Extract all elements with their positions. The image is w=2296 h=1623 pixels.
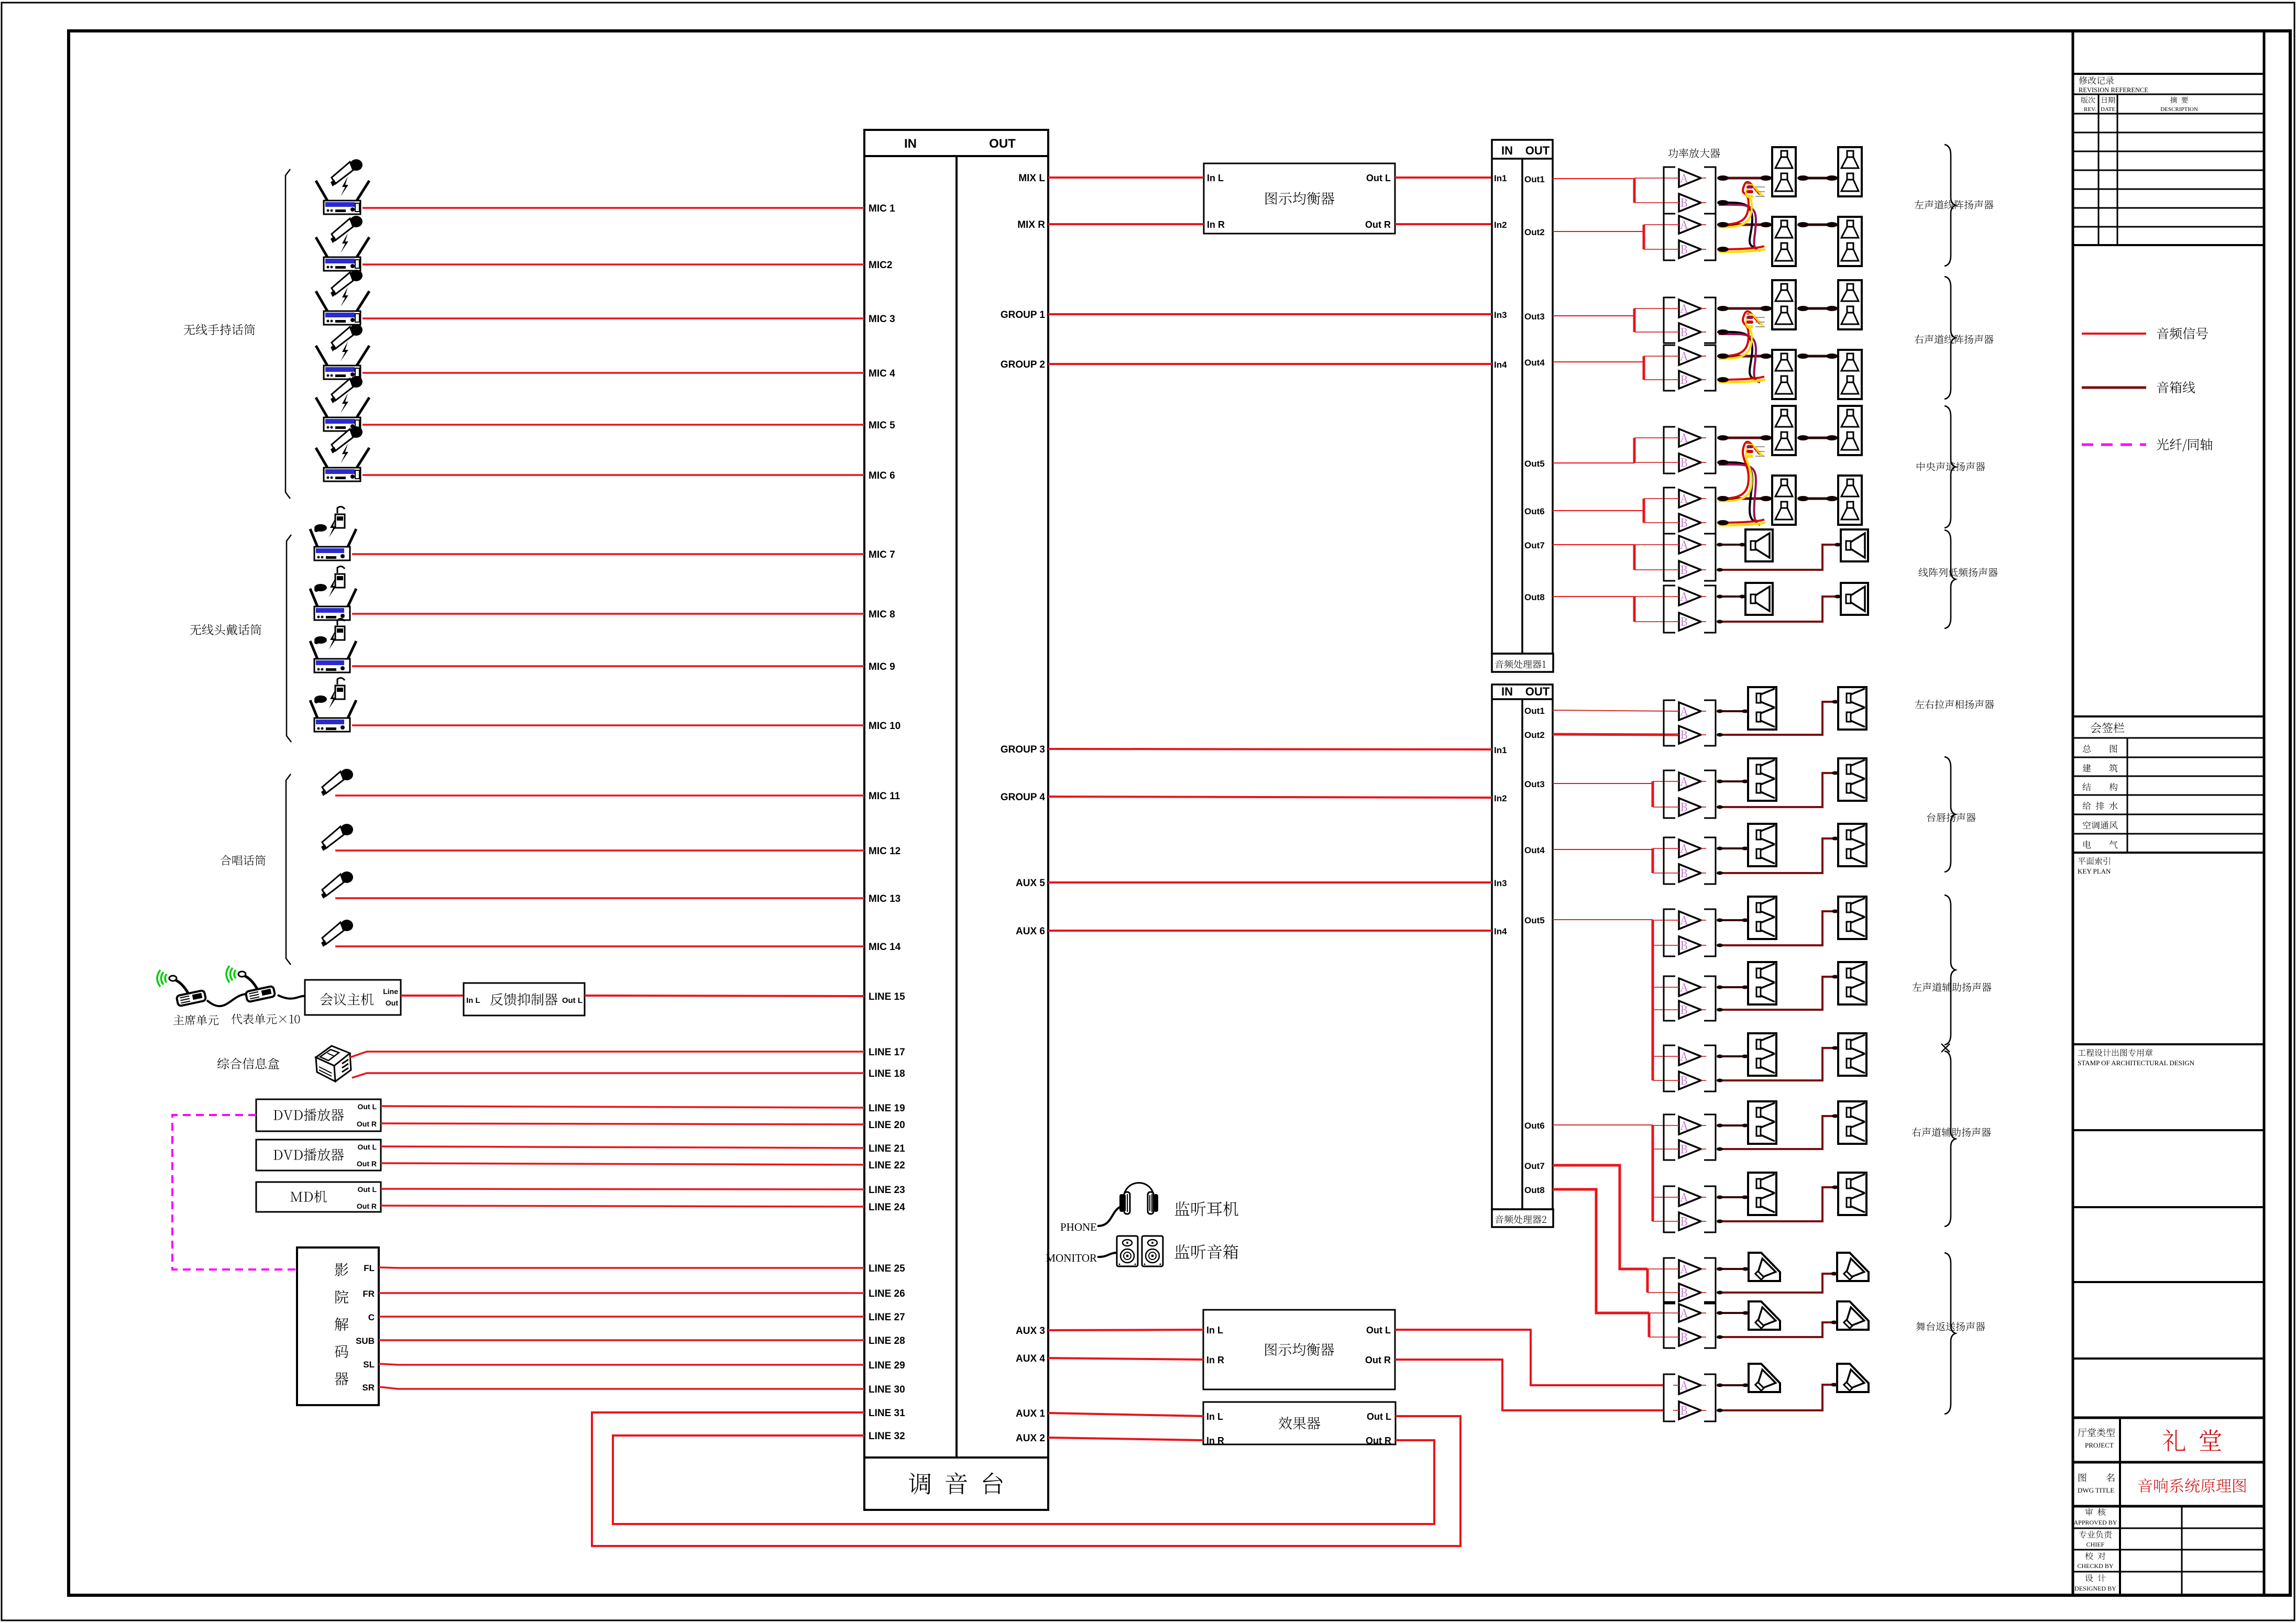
svg-text:Out7: Out7 xyxy=(1524,540,1545,550)
speaker LIP-1 col2 xyxy=(1838,758,1866,801)
wire MIC 4 signal xyxy=(362,372,864,374)
decoder name char 院 xyxy=(336,1290,349,1304)
amplifier MON-3 bracket xyxy=(1664,1374,1675,1421)
wire MIC 12 signal xyxy=(335,849,864,852)
cable color legend xyxy=(1746,183,1749,184)
礼堂 red title xyxy=(2163,1429,2222,1451)
svg-text:Out6: Out6 xyxy=(1524,1121,1545,1131)
amplifier MON-2 channel A xyxy=(1679,1304,1701,1322)
decoder name char 影 xyxy=(335,1263,348,1276)
feed Out6 vertical xyxy=(1652,1125,1654,1221)
svg-text:AUX 4: AUX 4 xyxy=(1016,1353,1045,1364)
mixer label box 调音台 xyxy=(864,1458,1048,1510)
svg-text:MONITOR: MONITOR xyxy=(1046,1252,1097,1264)
speaker wire MON-1 B xyxy=(1718,1274,1837,1293)
svg-text:Out1: Out1 xyxy=(1524,706,1545,716)
monitor cable xyxy=(1097,1253,1118,1257)
svg-text:APPROVED BY: APPROVED BY xyxy=(2073,1519,2117,1526)
amplifier AUX-R2 channel B xyxy=(1679,1212,1701,1230)
svg-text:LINE 18: LINE 18 xyxy=(869,1068,905,1079)
empty section line c xyxy=(2073,1357,2264,1360)
revision row line 4 xyxy=(2073,170,2264,171)
title block left edge xyxy=(2072,31,2074,1595)
amplifier LA-C-1 channel A xyxy=(1679,429,1701,447)
svg-text:Out R: Out R xyxy=(357,1202,377,1210)
svg-text:LINE 23: LINE 23 xyxy=(869,1185,905,1196)
svg-text:LINE 29: LINE 29 xyxy=(869,1360,905,1371)
svg-text:Out4: Out4 xyxy=(1524,358,1545,368)
speaker wire AUX-R2 B xyxy=(1718,1187,1838,1221)
amplifier SUB-2 channel B xyxy=(1679,613,1701,631)
approved row top xyxy=(2073,1505,2264,1508)
svg-text:AUX 6: AUX 6 xyxy=(1016,926,1045,937)
cable curls LA-R xyxy=(1719,332,1756,379)
svg-text:In4: In4 xyxy=(1494,926,1507,936)
wire DVD1 OutL to LINE 19 xyxy=(381,1106,864,1108)
svg-text:PROJECT: PROJECT xyxy=(2085,1441,2114,1449)
svg-text:AUX 1: AUX 1 xyxy=(1016,1408,1045,1419)
svg-text:In L: In L xyxy=(1207,173,1224,183)
feed wire SUB-2 vertical branch xyxy=(1633,597,1636,622)
zone H brace xyxy=(1945,1051,1956,1227)
zone label 左声道线阵扬声器 xyxy=(1915,200,1994,209)
line array speaker LA-C row1 col1 xyxy=(1772,406,1796,455)
line array speaker LA-L row1 col1 xyxy=(1772,147,1796,196)
svg-text:Out1: Out1 xyxy=(1524,174,1545,184)
wire MIC 8 signal xyxy=(352,613,864,615)
amplifier AUX-L2 channel B xyxy=(1679,1001,1701,1019)
amplifier AUX-R2 channel A xyxy=(1679,1188,1701,1206)
svg-text:MIC 13: MIC 13 xyxy=(869,893,900,904)
amplifier MON-2 channel B xyxy=(1679,1328,1701,1346)
feed stub F1 to A xyxy=(1653,781,1673,782)
project row top xyxy=(2073,1417,2264,1419)
zone D label 线阵列低频扬声器 xyxy=(1919,568,1998,577)
wireless headset mic receiver RX8 xyxy=(310,566,356,620)
feed stub SUB-2 to B xyxy=(1634,621,1673,622)
feed stub LA-C pair1 to B xyxy=(1634,462,1673,463)
审核 APPROVED BY xyxy=(2085,1508,2106,1516)
feed stub LA-L pair1 to A xyxy=(1634,178,1673,179)
wire MIC 9 signal xyxy=(352,665,864,667)
speaker wire AUX-L1 A xyxy=(1718,919,1748,921)
DVD player 2 box xyxy=(256,1140,381,1171)
feed stubs H1 xyxy=(1653,1125,1673,1126)
wire EQ1 Out L to proc1 In1 xyxy=(1395,176,1492,179)
svg-text:Out: Out xyxy=(386,999,398,1007)
amplifier LA-C-1 bracket xyxy=(1664,427,1675,473)
svg-text:Out L: Out L xyxy=(357,1185,377,1194)
sign row label 电气 xyxy=(2083,841,2117,848)
svg-text:SL: SL xyxy=(363,1360,375,1370)
wire MIC 6 signal xyxy=(362,474,864,476)
amplifier SUB-1 channel B xyxy=(1679,561,1701,579)
wire MIC 7 signal xyxy=(352,553,864,555)
wire DVD2 OutR to LINE 22 xyxy=(381,1163,864,1165)
svg-text:In L: In L xyxy=(466,996,480,1005)
wireless handheld mic receiver RX4 xyxy=(316,324,369,379)
speaker wire LA-R row1 A straight xyxy=(1719,307,1772,310)
amplifier LA-L-1 bracket xyxy=(1664,167,1675,214)
feed wire LA-L pair1 vertical branch xyxy=(1633,178,1636,203)
svg-text:GROUP 2: GROUP 2 xyxy=(1001,359,1045,370)
cable color legend xyxy=(1746,313,1749,315)
line array speaker LA-R row1 col2 xyxy=(1838,280,1862,329)
zone brace LA-L xyxy=(1945,145,1956,266)
svg-text:MIC 1: MIC 1 xyxy=(869,203,895,214)
stamp bottom xyxy=(2073,1129,2264,1131)
wire MIC 10 signal xyxy=(352,724,864,726)
sign row line 2 xyxy=(2073,776,2264,777)
svg-text:MIX R: MIX R xyxy=(1017,219,1045,230)
feed stub LA-C pair2 to A xyxy=(1644,498,1673,499)
svg-text:MIC 12: MIC 12 xyxy=(869,846,900,857)
feed wire F2 vertical branch xyxy=(1652,848,1654,873)
wire AUX 3 to EQ2 In L xyxy=(1048,1330,1203,1330)
amplifier AUX-L1 channel B xyxy=(1679,936,1701,954)
svg-text:Out7: Out7 xyxy=(1524,1161,1545,1171)
svg-text:MIC 8: MIC 8 xyxy=(869,609,895,620)
speaker PULL-1 col2 xyxy=(1838,687,1866,730)
chorus microphone M13 xyxy=(321,871,353,899)
processor2 label box xyxy=(1492,1209,1553,1227)
amplifier LIP-2 channel B xyxy=(1679,864,1701,882)
feed stub LA-L pair1 to B xyxy=(1634,202,1673,203)
label 综合信息盒 xyxy=(217,1058,279,1069)
wire decoder FL to mixer xyxy=(379,1267,864,1268)
svg-text:AUX 5: AUX 5 xyxy=(1016,878,1045,889)
svg-text:LINE 20: LINE 20 xyxy=(869,1120,905,1131)
zone D brace xyxy=(1945,530,1956,628)
amplifier MON-3 channel B xyxy=(1679,1401,1701,1419)
speaker wire LIP-2 A xyxy=(1718,847,1748,849)
svg-text:LINE 25: LINE 25 xyxy=(869,1263,905,1274)
group bracket chorus mics xyxy=(286,774,291,965)
svg-text:Out L: Out L xyxy=(357,1102,377,1111)
amplifier MON-1 channel B xyxy=(1679,1284,1701,1301)
stage monitor wedge MON-1 col1 xyxy=(1749,1253,1780,1283)
speaker LIP-2 col1 xyxy=(1748,824,1776,866)
DVD player 1 box xyxy=(256,1099,381,1131)
feed wire LA-L pair2 horizontal xyxy=(1553,231,1644,232)
wire suppressor to LINE 15 xyxy=(585,996,864,996)
日期 DATE xyxy=(2102,97,2115,104)
amplifier LA-R-2 channel B xyxy=(1679,371,1701,389)
校对 CHECKD BY xyxy=(2085,1552,2105,1560)
amplifier LA-R-1 channel B xyxy=(1679,323,1701,341)
empty section line b xyxy=(2073,1281,2264,1283)
sign row line 0 xyxy=(2073,737,2264,739)
svg-text:SUB: SUB xyxy=(356,1336,375,1346)
svg-text:In R: In R xyxy=(1207,219,1225,230)
amplifier AUX-R1 bracket xyxy=(1664,1114,1675,1160)
speaker wire PULL-1 B xyxy=(1718,702,1838,735)
group label 合唱话筒 xyxy=(221,855,266,866)
feed wire LA-R pair2 horizontal xyxy=(1553,361,1644,362)
svg-text:PHONE: PHONE xyxy=(1060,1221,1097,1233)
svg-text:Out5: Out5 xyxy=(1524,915,1545,925)
svg-text:DESIGNED BY: DESIGNED BY xyxy=(2074,1585,2116,1592)
wire host to suppressor xyxy=(401,995,464,997)
会签栏 label xyxy=(2091,723,2124,733)
wire proc2 Out1 to amp E A xyxy=(1553,710,1679,711)
feed wire LA-C pair1 horizontal xyxy=(1553,462,1634,463)
svg-text:LINE 15: LINE 15 xyxy=(869,991,905,1002)
zone I label 舞台返送扬声器 xyxy=(1916,1322,1985,1331)
svg-text:In L: In L xyxy=(1206,1325,1223,1335)
feed wire LA-R pair2 vertical branch xyxy=(1643,356,1645,380)
wire proc2 Out7 to stage row1 xyxy=(1553,1165,1647,1269)
zone G brace xyxy=(1945,895,1956,1045)
cinema decoder box 影院解码器 xyxy=(297,1247,379,1405)
revision row line 5 xyxy=(2073,189,2264,190)
amplifier AUX-L3 channel A xyxy=(1679,1047,1701,1065)
conference cable xyxy=(207,994,305,1006)
svg-text:Out L: Out L xyxy=(1366,1325,1391,1335)
svg-text:Out3: Out3 xyxy=(1524,779,1545,789)
amplifier MON-1 bracket xyxy=(1664,1258,1675,1304)
stage monitor wedge MON-3 col1 xyxy=(1749,1364,1780,1394)
svg-text:Out5: Out5 xyxy=(1524,459,1545,469)
feed wire F1 vertical branch xyxy=(1652,781,1654,807)
svg-text:CHECKD BY: CHECKD BY xyxy=(2077,1562,2113,1570)
svg-text:In R: In R xyxy=(1206,1355,1224,1365)
svg-text:C: C xyxy=(368,1312,375,1322)
monitor speaker left xyxy=(1117,1236,1138,1266)
amplifier AUX-L1 bracket xyxy=(1664,909,1675,956)
sign rows bottom line xyxy=(2073,852,2264,854)
zone F brace xyxy=(1945,757,1956,872)
wire MD OutL to LINE 23 xyxy=(381,1189,864,1189)
zone brace LA-C xyxy=(1945,406,1956,528)
feed stub SUB-1 to B xyxy=(1634,569,1673,570)
svg-text:MIC 6: MIC 6 xyxy=(869,470,895,481)
wire EQ2 Out L to stage amp A3 xyxy=(1395,1330,1664,1385)
stage row2 stubs xyxy=(1649,1312,1673,1313)
graphic equalizer 2 box 图示均衡器 xyxy=(1203,1310,1395,1389)
svg-text:FL: FL xyxy=(364,1263,375,1273)
wire MIX L to EQ1 In L xyxy=(1048,176,1204,179)
chief row top xyxy=(2073,1528,2264,1529)
effects loop L to LINE 31 xyxy=(592,1412,1460,1546)
svg-text:Line: Line xyxy=(383,987,398,996)
wire AUX 2 to effects In R xyxy=(1048,1438,1203,1440)
speaker wire SUB-1 A xyxy=(1718,544,1745,546)
amplifier LA-C-2 channel B xyxy=(1679,514,1701,532)
svg-text:LINE 24: LINE 24 xyxy=(869,1202,905,1213)
svg-text:OUT: OUT xyxy=(1525,685,1550,698)
svg-text:In2: In2 xyxy=(1494,793,1507,803)
wire decoder C to mixer xyxy=(379,1316,864,1318)
feed stubs G3 xyxy=(1653,1056,1673,1057)
amplifier MON-2 bracket xyxy=(1664,1302,1675,1348)
svg-text:Out R: Out R xyxy=(357,1160,377,1168)
专业负责 CHIEF xyxy=(2079,1530,2112,1538)
revision col divider 1 xyxy=(2098,94,2100,245)
cable color legend xyxy=(1746,443,1749,444)
revision row line 7 xyxy=(2073,226,2264,228)
svg-text:Out R: Out R xyxy=(1366,1436,1391,1446)
sign row line 4 xyxy=(2073,814,2264,815)
speaker wire LA-L row1 A straight xyxy=(1719,177,1772,180)
amplifier LA-R-2 bracket xyxy=(1664,345,1675,391)
feed stub LA-R pair1 to B xyxy=(1634,332,1673,333)
amplifier MON-3 channel A xyxy=(1679,1376,1701,1394)
line array speaker LA-R row2 col2 xyxy=(1838,350,1862,399)
speaker wire LIP-2 B xyxy=(1718,838,1838,873)
feed stub LA-R pair2 to B xyxy=(1644,379,1673,380)
svg-text:SR: SR xyxy=(362,1383,375,1393)
legend speaker wire label 音箱线 xyxy=(2157,381,2195,393)
speaker wire AUX-L3 B xyxy=(1718,1048,1838,1080)
stage monitor wedge MON-2 col1 xyxy=(1749,1301,1780,1332)
svg-text:Out6: Out6 xyxy=(1524,506,1545,516)
revision table outer xyxy=(2073,73,2264,75)
amplifier PULL-1 bracket xyxy=(1664,700,1675,746)
feed stub LA-R pair2 to A xyxy=(1644,356,1673,357)
svg-text:OUT: OUT xyxy=(1525,144,1550,157)
svg-text:MIC 10: MIC 10 xyxy=(869,721,900,732)
sign row label 空调通风 xyxy=(2083,821,2118,830)
group label 无线手持话筒 xyxy=(184,324,255,335)
svg-text:In R: In R xyxy=(1206,1436,1224,1446)
sign row label 总图 xyxy=(2083,745,2117,753)
stage monitor wedge MON-3 col2 xyxy=(1837,1364,1869,1394)
wire info box to LINE 17 xyxy=(350,1052,864,1057)
svg-text:CHIEF: CHIEF xyxy=(2086,1541,2105,1548)
svg-text:In4: In4 xyxy=(1494,360,1507,370)
speaker AUX-L3 col2 xyxy=(1838,1033,1866,1076)
svg-text:In3: In3 xyxy=(1494,878,1507,888)
revision row line 2 xyxy=(2073,132,2264,134)
stage row1 branch xyxy=(1646,1269,1649,1293)
label 主席单元 xyxy=(173,1015,218,1025)
chorus microphone M12 xyxy=(321,824,353,851)
amplifier AUX-R2 bracket xyxy=(1664,1186,1675,1232)
svg-text:MIC 7: MIC 7 xyxy=(869,549,895,560)
svg-text:DWG TITLE: DWG TITLE xyxy=(2078,1486,2114,1494)
feed Out5 horizontal xyxy=(1553,919,1653,920)
speaker wire MON-2 A xyxy=(1718,1312,1749,1314)
group bracket wireless handheld mics xyxy=(285,169,290,499)
amplifier LA-R-2 channel A xyxy=(1679,347,1701,365)
svg-text:MIC 14: MIC 14 xyxy=(869,942,901,953)
amplifier AUX-L2 bracket xyxy=(1664,976,1675,1021)
chairman conference unit xyxy=(157,970,206,1006)
wireless handheld mic receiver RX1 xyxy=(316,159,369,214)
wire decoder SUB to mixer xyxy=(379,1339,864,1341)
会签栏 col divider xyxy=(2127,738,2128,853)
legend fiber label 光纤/同轴 xyxy=(2157,438,2213,451)
speaker wire MON-2 B xyxy=(1718,1322,1837,1337)
zone G label 左声道辅助扬声器 xyxy=(1913,982,1992,991)
wire EQ1 Out R to proc1 In2 xyxy=(1395,223,1492,225)
wireless headset mic receiver RX10 xyxy=(310,678,356,732)
feedback suppressor box 反馈抑制器 xyxy=(464,983,585,1015)
wire proc2 Out8 to stage row2 xyxy=(1553,1189,1649,1313)
speaker wire LIP-1 A xyxy=(1718,780,1748,782)
svg-text:In1: In1 xyxy=(1494,745,1507,755)
amplifier LA-C-2 channel A xyxy=(1679,490,1701,507)
svg-text:Out L: Out L xyxy=(1367,1411,1391,1422)
feed stub F2 to A xyxy=(1653,848,1673,849)
speaker AUX-L2 col2 xyxy=(1838,962,1866,1004)
brace junction X mark xyxy=(1941,1044,1950,1052)
processor1 divider xyxy=(1521,159,1523,654)
feed wire LA-L pair1 horizontal xyxy=(1553,178,1634,179)
zone E label 左右拉声相扬声器 xyxy=(1915,700,1994,709)
speaker LIP-1 col1 xyxy=(1748,758,1776,801)
厅堂类型 PROJECT xyxy=(2078,1428,2115,1437)
legend audio signal line xyxy=(2082,333,2146,335)
MD player box xyxy=(256,1182,381,1212)
svg-text:Out8: Out8 xyxy=(1524,1185,1545,1195)
amplifier SUB-2 channel A xyxy=(1679,588,1701,605)
svg-text:MIC2: MIC2 xyxy=(869,260,892,271)
amplifier LA-C-1 channel B xyxy=(1679,454,1701,471)
effects box 效果器 xyxy=(1203,1402,1396,1444)
svg-text:LINE 21: LINE 21 xyxy=(869,1143,905,1154)
amplifier SUB-1 bracket xyxy=(1664,534,1675,581)
speaker wire LA-R row2 A straight xyxy=(1719,355,1772,358)
revision col divider 2 xyxy=(2117,94,2118,245)
svg-text:IN: IN xyxy=(1501,685,1513,698)
wire DVD1 OutR to LINE 20 xyxy=(381,1123,864,1124)
feed wire LA-R pair1 vertical branch xyxy=(1633,308,1636,332)
版次 REV. xyxy=(2081,96,2095,103)
svg-text:Out R: Out R xyxy=(1365,219,1391,230)
sign row line 5 xyxy=(2073,833,2264,835)
speaker wire AUX-L1 B xyxy=(1718,911,1838,945)
svg-text:LINE 17: LINE 17 xyxy=(869,1047,905,1058)
摘要 DESCRIPTION xyxy=(2170,96,2188,103)
zone H label 右声道辅助扬声器 xyxy=(1912,1128,1991,1136)
speaker AUX-L2 col1 xyxy=(1748,962,1776,1004)
speaker wire AUX-R2 A xyxy=(1718,1196,1748,1198)
svg-text:MIC 11: MIC 11 xyxy=(869,791,900,802)
decoder name char 器 xyxy=(335,1372,348,1385)
svg-text:In1: In1 xyxy=(1494,173,1507,183)
feed wire F2 horizontal xyxy=(1553,849,1653,850)
svg-text:IN: IN xyxy=(904,137,917,151)
svg-text:LINE 22: LINE 22 xyxy=(869,1160,905,1171)
wire MIC 13 signal xyxy=(335,897,864,899)
speaker link wire row2 xyxy=(1799,224,1836,226)
wire GROUP 2 to proc1 In4 xyxy=(1048,363,1492,365)
wire decoder SL to mixer xyxy=(379,1364,864,1365)
wire AUX 5 to proc2 In3 xyxy=(1048,881,1492,884)
amplifier LA-L-2 bracket xyxy=(1664,214,1675,260)
speaker wire MON-1 A xyxy=(1718,1268,1749,1270)
processor2 name 音频处理器2 xyxy=(1495,1215,1546,1224)
平面索引 KEY PLAN label xyxy=(2078,857,2110,865)
revision row line 8 xyxy=(2073,244,2264,246)
speaker wire SUB-2 A xyxy=(1718,595,1745,598)
wire MIC 2 signal xyxy=(362,263,864,266)
svg-text:LINE 27: LINE 27 xyxy=(869,1312,905,1323)
feed wire LA-C pair1 vertical branch xyxy=(1633,438,1636,462)
svg-text:Out2: Out2 xyxy=(1524,730,1545,740)
svg-text:LINE 31: LINE 31 xyxy=(869,1408,905,1419)
line array speaker LA-L row2 col2 xyxy=(1838,217,1862,266)
speaker wire AUX-L2 A xyxy=(1718,986,1748,988)
speaker link wire row2 xyxy=(1799,498,1836,500)
svg-text:KEY PLAN: KEY PLAN xyxy=(2078,867,2111,875)
cable curls LA-L xyxy=(1719,203,1756,248)
svg-text:LINE 28: LINE 28 xyxy=(869,1335,905,1346)
wireless handheld mic receiver RX6 xyxy=(316,426,369,481)
line array speaker LA-C row1 col2 xyxy=(1838,406,1862,455)
